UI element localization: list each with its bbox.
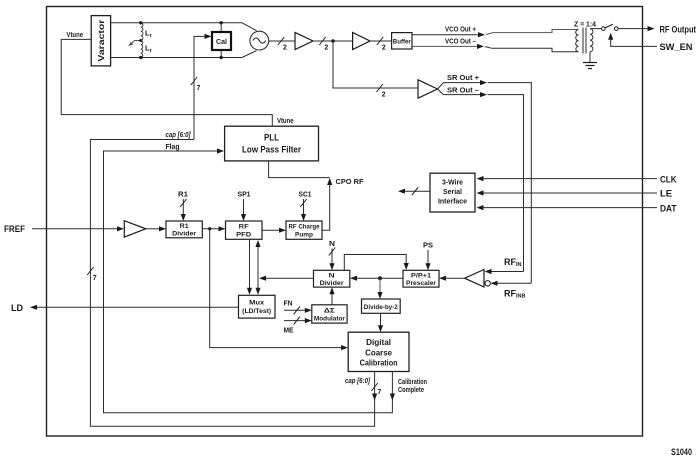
wire Cal to tank <box>220 23 222 58</box>
varactor box <box>91 16 110 66</box>
wire VCO Out - <box>412 44 579 52</box>
R1 divider box <box>166 221 202 238</box>
wire VCO Out + <box>412 30 579 38</box>
svg-text:2: 2 <box>324 45 328 52</box>
svg-text:PFD: PFD <box>236 231 251 238</box>
net label SC1 (with slash arrow) <box>299 192 312 222</box>
wire main split down to SR driver <box>333 41 418 88</box>
svg-text:Digital: Digital <box>366 337 391 347</box>
net label R1 (with slash arrow) <box>178 192 188 222</box>
net label N (with slash arrow) <box>329 241 335 270</box>
svg-text:Divide-by-2: Divide-by-2 <box>364 304 398 311</box>
svg-text:Calibration: Calibration <box>398 379 427 386</box>
svg-text:Vtune: Vtune <box>277 118 294 125</box>
svg-text:ME: ME <box>284 328 294 335</box>
svg-text:Pump: Pump <box>295 231 313 238</box>
svg-text:cap [6:0]: cap [6:0] <box>345 378 371 385</box>
wire Vtune from PLL LPF to varactor <box>61 39 272 126</box>
wire A1 to A2 <box>313 40 353 42</box>
svg-text:SR Out –: SR Out – <box>447 87 479 94</box>
svg-text:VCO Out +: VCO Out + <box>445 27 476 34</box>
VCO funnel outline <box>242 23 257 58</box>
ground <box>583 63 597 69</box>
svg-text:Z = 1:4: Z = 1:4 <box>574 22 596 29</box>
wire secondary bottom to ground <box>589 52 591 63</box>
mux box <box>239 295 276 318</box>
svg-text:R1: R1 <box>178 192 188 199</box>
wire cap[6:0] output of calibration (with /7 slash and arrow) <box>371 372 381 401</box>
svg-text:Complete: Complete <box>398 387 424 394</box>
svg-text:SC1: SC1 <box>299 192 312 199</box>
wire Calibration Complete output (arrow) <box>390 372 395 401</box>
capacitor-bank box Cal <box>212 32 231 50</box>
svg-text:CPO RF: CPO RF <box>336 179 365 186</box>
svg-text:SW_EN: SW_EN <box>660 42 693 53</box>
wire RF amp to prescaler <box>439 276 465 281</box>
svg-text:7: 7 <box>378 389 382 396</box>
net label ME (with slash arrow) <box>284 317 312 335</box>
svg-text:3-Wire: 3-Wire <box>442 178 463 187</box>
wire LD output <box>30 305 239 310</box>
svg-text:LD: LD <box>11 303 23 314</box>
delta-sigma modulator box <box>312 305 347 323</box>
svg-text:Low Pass Filter: Low Pass Filter <box>242 145 301 155</box>
svg-text:Calibration: Calibration <box>360 358 398 368</box>
net label SP1 (arrow) <box>238 192 251 222</box>
chip boundary <box>47 7 643 437</box>
svg-text:RF Charge: RF Charge <box>289 223 320 230</box>
wire RF PFD to charge pump <box>262 228 286 233</box>
RF charge pump box <box>286 221 322 239</box>
wire DAT <box>477 205 658 210</box>
svg-text:Mux: Mux <box>249 300 264 307</box>
svg-text:(LD/Test): (LD/Test) <box>242 308 271 315</box>
wire prescaler to N divider <box>350 276 403 281</box>
transformer T1 <box>576 28 593 54</box>
amplifier FREF input buffer <box>124 221 145 237</box>
svg-text:Cal: Cal <box>216 39 227 46</box>
inductor Lr (variable, center-tapped) <box>128 21 143 59</box>
PLL low-pass filter box <box>225 126 319 161</box>
svg-text:PS: PS <box>423 243 433 250</box>
bus slash /2 (after VCO) <box>278 37 287 52</box>
node: Cal top connection <box>220 21 223 24</box>
wire LE <box>477 190 658 195</box>
wire RFinb into amp bubble <box>491 281 532 286</box>
svg-text:7: 7 <box>197 85 201 92</box>
svg-text:Varactor: Varactor <box>96 19 106 62</box>
wire R1 divider to calibration <box>210 229 348 350</box>
svg-text:Serial: Serial <box>443 187 462 196</box>
wire to R1 divider <box>146 226 166 231</box>
svg-text:R1: R1 <box>180 223 189 230</box>
svg-text:PLL: PLL <box>264 133 279 143</box>
svg-text:SP1: SP1 <box>238 192 251 199</box>
wire tank top <box>111 22 242 24</box>
prescaler box <box>403 270 439 287</box>
oscillator VCO <box>250 31 269 50</box>
svg-text:2: 2 <box>382 45 386 52</box>
wire serial control bus out (with slash) <box>398 187 430 195</box>
svg-text:LE: LE <box>660 189 672 200</box>
svg-text:Flag: Flag <box>166 144 180 151</box>
svg-text:VCO Out –: VCO Out – <box>445 38 476 45</box>
wire PFD to Mux (left) <box>247 239 252 294</box>
amplifier RF input stage (with inverting bubble) <box>465 270 491 288</box>
svg-text:cap [6:0]: cap [6:0] <box>166 132 192 139</box>
svg-text:2: 2 <box>283 45 287 52</box>
wire secondary top to switch <box>590 28 601 30</box>
wire R1 divider to RF PFD <box>202 226 225 231</box>
wire divide-by-2 to calibration <box>378 313 383 332</box>
wire VCO output <box>269 40 295 42</box>
wire N divider modulus loop to prescaler <box>344 255 409 271</box>
wire cap[6:0] bus into Cal (with /7) <box>191 34 212 140</box>
svg-text:Prescaler: Prescaler <box>406 280 436 287</box>
net label FN (with slash arrow) <box>284 300 312 314</box>
wire CLK <box>477 176 658 181</box>
wire FREF input <box>32 226 124 231</box>
svg-text:RF Output: RF Output <box>660 25 697 36</box>
node: prescaler output split <box>378 276 382 280</box>
net label Calibration Complete <box>398 379 427 394</box>
node: R1 divider output split <box>208 227 211 230</box>
svg-text:P/P+1: P/P+1 <box>411 272 431 279</box>
switch SW1 <box>602 24 619 30</box>
wire to RF Output pin <box>618 26 655 31</box>
svg-text:Interface: Interface <box>438 197 467 206</box>
wire charge pump to LPF (CPO RF) <box>269 161 333 230</box>
svg-text:Vtune: Vtune <box>67 32 84 39</box>
wire RFin into amp <box>485 269 524 274</box>
amplifier SR driver <box>418 80 438 98</box>
wire SR Out + <box>438 80 532 283</box>
divide-by-2 box <box>362 299 401 313</box>
svg-text:Buffer: Buffer <box>393 38 411 45</box>
svg-text:CLK: CLK <box>660 174 677 185</box>
svg-text:ΔΣ: ΔΣ <box>324 307 335 314</box>
bus slash /2 (after A1) <box>319 37 328 52</box>
wire Flag feedback (inner loop into LPF) <box>104 148 393 412</box>
wire A2 to Buffer <box>370 40 392 42</box>
N divider box <box>314 270 350 287</box>
svg-text:FREF: FREF <box>4 224 25 235</box>
wire SW_EN control <box>608 33 657 47</box>
node: Cal bottom connection <box>220 56 223 59</box>
bus slash /2 (SR path) <box>377 84 386 99</box>
buffer box <box>392 33 412 49</box>
serial interface box <box>430 173 475 212</box>
svg-text:DAT: DAT <box>660 203 677 214</box>
wire N divider feedback to PFD / Mux (right, double arrow) <box>255 240 260 295</box>
svg-text:Coarse: Coarse <box>365 347 392 357</box>
net label PS (arrow) <box>423 243 433 271</box>
wire SR Out - <box>438 89 524 272</box>
wire N divider output to feedback line <box>259 276 314 281</box>
svg-text:SR Out +: SR Out + <box>447 75 479 82</box>
svg-text:N: N <box>329 241 335 248</box>
RF PFD box <box>226 221 263 239</box>
svg-text:N: N <box>329 272 335 279</box>
svg-text:S1040: S1040 <box>671 447 692 458</box>
bus slash /2 (before Buffer) <box>377 37 386 52</box>
wire delta-sigma to N divider <box>329 287 334 305</box>
amplifier A2 (buffer driver) <box>353 33 370 50</box>
wire tank bottom <box>111 57 242 59</box>
svg-text:Divider: Divider <box>172 231 196 238</box>
wire cap[6:0] feedback (bottom loop to Cal bus, with /7) <box>87 140 374 427</box>
wire split down to divide-by-2 <box>377 278 382 299</box>
amplifier A1 (divide chain) <box>295 33 313 50</box>
svg-text:2: 2 <box>382 92 386 99</box>
svg-text:FN: FN <box>284 300 293 307</box>
svg-text:7: 7 <box>93 275 97 282</box>
node: main RF split <box>331 39 334 42</box>
svg-text:RF: RF <box>239 223 249 230</box>
digital coarse calibration box <box>348 332 409 371</box>
svg-text:Divider: Divider <box>320 280 344 287</box>
svg-text:Modulator: Modulator <box>314 315 345 322</box>
